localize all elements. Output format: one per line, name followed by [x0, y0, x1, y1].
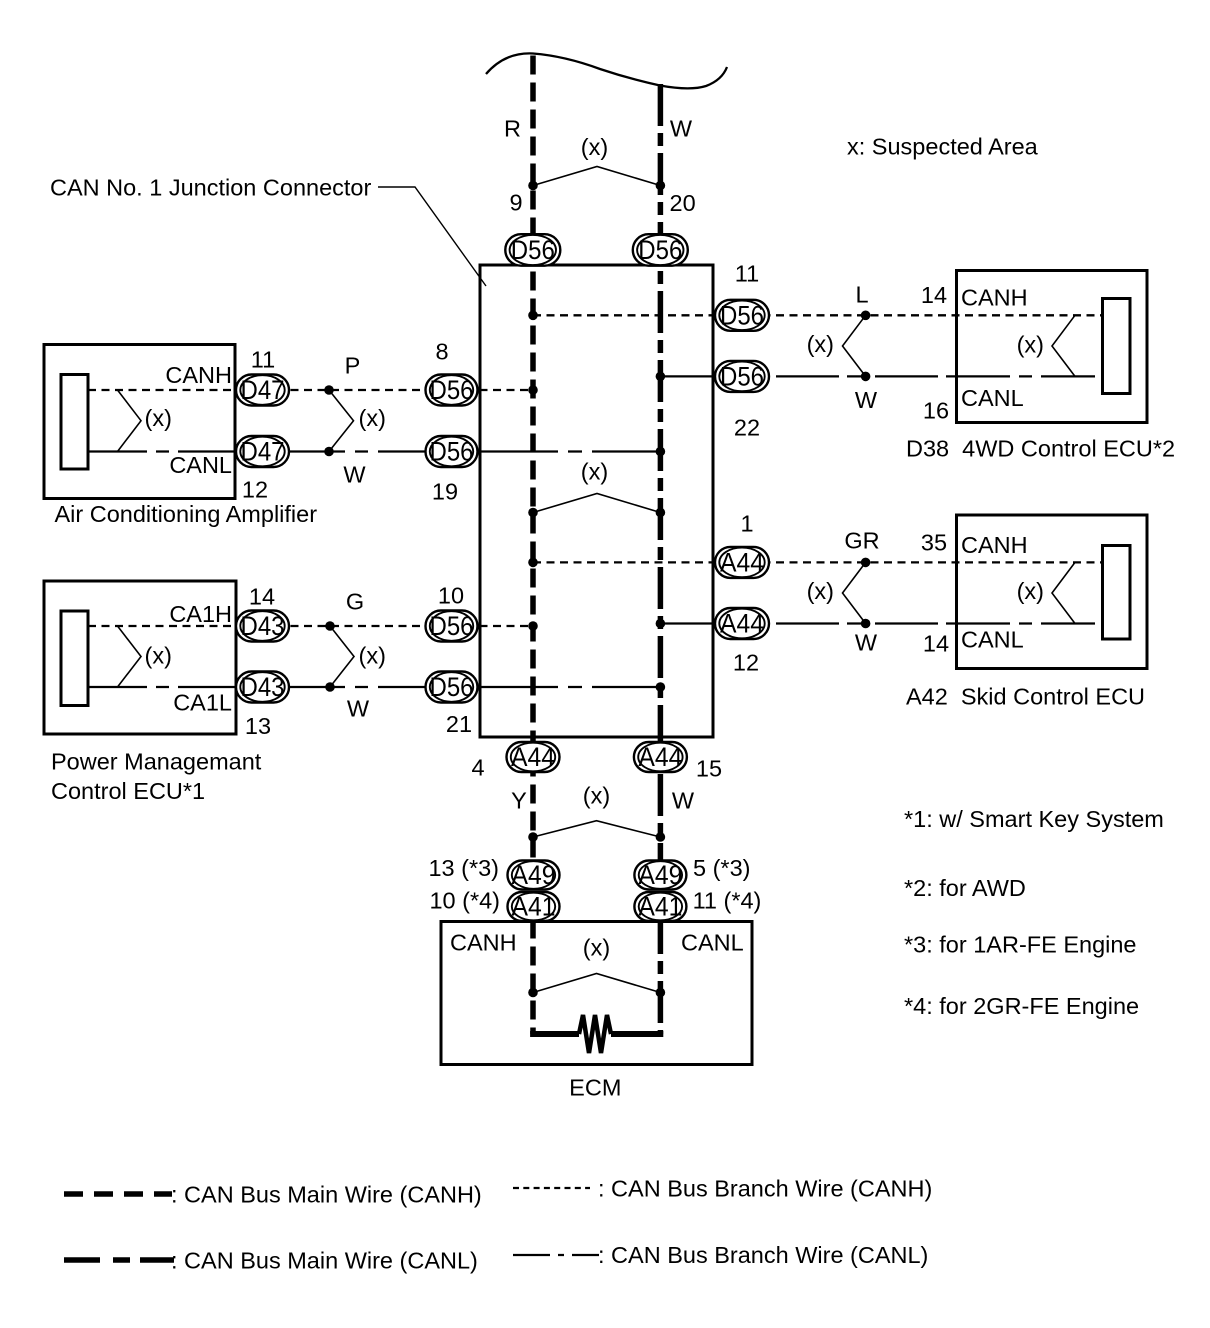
svg-text:(x): (x) [145, 405, 172, 431]
svg-text:A44: A44 [720, 609, 764, 639]
wire color P [345, 353, 361, 379]
label CANL 4wd [961, 385, 1024, 411]
svg-text:5 (*3): 5 (*3) [693, 855, 750, 881]
node ECM CANH [528, 988, 538, 998]
node below box CANH [528, 832, 538, 842]
svg-text:19: 19 [432, 479, 458, 505]
svg-text:D56: D56 [638, 235, 682, 265]
svg-text:20: 20 [670, 190, 696, 216]
note 3 [904, 932, 1137, 958]
svg-text:*2: for AWD: *2: for AWD [904, 875, 1026, 901]
svg-text:CANH: CANH [165, 362, 232, 388]
suspect label skid branch [807, 578, 834, 604]
wire color W 4wd [855, 387, 878, 413]
svg-text:GR: GR [844, 528, 879, 554]
svg-text:12: 12 [733, 650, 759, 676]
connector D56 pin19 [426, 436, 478, 467]
svg-text:D56: D56 [511, 235, 555, 265]
svg-text:Y: Y [511, 788, 527, 814]
suspect callout top [533, 167, 660, 186]
connector D43 pin13 [236, 672, 289, 703]
suspect callout skid internal [1052, 562, 1075, 623]
svg-text:10: 10 [438, 583, 464, 609]
pin 12 right [733, 650, 759, 676]
label CANH skid [961, 532, 1028, 558]
label CANH ecm [450, 930, 517, 956]
connector D43 pin14 [236, 611, 289, 642]
svg-text:CANH: CANH [961, 532, 1028, 558]
node mid box CANL [656, 508, 666, 518]
svg-text:14: 14 [249, 584, 275, 610]
node below box CANL [656, 832, 666, 842]
label D38 4WD Control ECU*2 [906, 436, 1175, 462]
node top CANL [656, 181, 666, 191]
pin 13 (*3) [428, 855, 499, 881]
svg-text:A44: A44 [638, 742, 682, 772]
node pin21 branch [656, 682, 666, 692]
label CANH a/c [165, 362, 232, 388]
legend sample main CANH [64, 1191, 172, 1197]
legend sample branch CANH [513, 1187, 590, 1189]
connector A49 pin13 (CANH) [508, 860, 560, 890]
svg-text:W: W [672, 788, 695, 814]
wire branch CANL A/C amplifier row [88, 450, 660, 452]
pin 15 [696, 756, 722, 782]
svg-text:Control ECU*1: Control ECU*1 [51, 778, 205, 804]
wire CANH main (R) vertical [530, 56, 536, 1035]
suspect callout power management branch [330, 626, 354, 687]
wire color W pm [347, 696, 370, 722]
label CANH 4wd [961, 285, 1028, 311]
wire ECM bottom right [611, 1031, 663, 1037]
suspect label below box [583, 783, 610, 809]
svg-text:ECM: ECM [569, 1075, 621, 1101]
svg-text:(x): (x) [807, 331, 834, 357]
node 4WD CANL branch [861, 372, 871, 382]
legend text main CANH [171, 1182, 482, 1208]
svg-text:A44: A44 [511, 742, 555, 772]
node PM CANH branch [325, 621, 335, 631]
label Power Managemant [51, 749, 262, 775]
svg-text:*4: for 2GR-FE Engine: *4: for 2GR-FE Engine [904, 993, 1139, 1019]
svg-text:(x): (x) [359, 405, 386, 431]
svg-text:: CAN Bus Branch Wire (CANH): : CAN Bus Branch Wire (CANH) [598, 1176, 932, 1202]
pin 22 right [734, 415, 760, 441]
label Air Conditioning Amplifier [55, 501, 318, 527]
wire branch CANH power management row [88, 625, 533, 627]
node PM CANL branch [325, 682, 335, 692]
note 1 [904, 806, 1164, 832]
Air Conditioning Amplifier internal connector [61, 375, 88, 470]
pin 21 [446, 711, 472, 737]
wire branch CANH row pin1 to Skid ECU [533, 561, 1103, 563]
svg-text:10 (*4): 10 (*4) [429, 888, 500, 914]
node pin10 branch [528, 621, 538, 631]
node pin8 branch [528, 385, 538, 395]
svg-text:(x): (x) [581, 134, 608, 160]
label ECM [569, 1075, 621, 1101]
pin 14 D43 [249, 584, 275, 610]
svg-text:W: W [855, 387, 878, 413]
note 2 [904, 875, 1026, 901]
node pin12 branch [656, 619, 666, 629]
connector A41 pin10 (CANH) [508, 892, 560, 922]
legend sample branch CANL [513, 1254, 599, 1256]
svg-text:D47: D47 [241, 437, 285, 467]
pin 11 D47 [251, 347, 275, 373]
svg-text:11: 11 [735, 261, 759, 287]
svg-text:D56: D56 [430, 611, 474, 641]
wire branch CANL row pin22 to 4WD ECU [660, 375, 1102, 377]
pin 14 skid [923, 631, 949, 657]
pin 14 4wd [921, 282, 947, 308]
node pin1 branch [528, 558, 538, 568]
wire color W a/c [343, 462, 366, 488]
wire CANL main (W) vertical [658, 84, 664, 1034]
connector A44 pin4 (bottom CANH) [507, 742, 560, 772]
label CA1L [173, 690, 232, 716]
note 4 [904, 993, 1139, 1019]
svg-text:11 (*4): 11 (*4) [693, 888, 762, 914]
svg-text:A49: A49 [638, 860, 682, 890]
wire color W skid [855, 630, 878, 656]
connector D56 pin21 [426, 672, 478, 703]
svg-text:D38 4WD Control ECU*2: D38 4WD Control ECU*2 [906, 436, 1175, 462]
4WD Control ECU internal connector [1103, 299, 1131, 394]
suspect label pm internal [145, 643, 172, 669]
svg-text:(x): (x) [583, 935, 610, 961]
suspect callout inside ECM [533, 974, 660, 993]
svg-text:D43: D43 [241, 611, 285, 641]
suspect label pm branch [359, 643, 386, 669]
connector A44 pin1 [715, 547, 769, 578]
svg-text:CANH: CANH [450, 930, 517, 956]
label CA1H [169, 601, 232, 627]
suspect callout power management internal [118, 626, 142, 687]
svg-text:CAN No. 1 Junction Connector: CAN No. 1 Junction Connector [50, 175, 371, 201]
svg-text:CA1H: CA1H [169, 601, 232, 627]
svg-text:22: 22 [734, 415, 760, 441]
pin 11 (*4) [693, 888, 762, 914]
svg-text:: CAN Bus Branch Wire (CANL): : CAN Bus Branch Wire (CANL) [598, 1242, 928, 1268]
connector D47 pin12 [236, 436, 289, 467]
suspect callout 4WD internal [1052, 315, 1075, 376]
Power Management Control ECU box [44, 581, 236, 734]
wire branch CANH A/C amplifier row [88, 389, 533, 391]
svg-text:14: 14 [923, 631, 949, 657]
pin 10 (*4) [429, 888, 500, 914]
suspect label 4wd internal [1017, 332, 1044, 358]
node top CANH [528, 181, 538, 191]
suspect label top [581, 134, 608, 160]
pin 5 (*3) [693, 855, 750, 881]
svg-text:P: P [345, 353, 361, 379]
wire color GR [844, 528, 879, 554]
suspect callout inside junction box [533, 494, 660, 513]
svg-text:(x): (x) [581, 459, 608, 485]
svg-text:13 (*3): 13 (*3) [428, 855, 499, 881]
leader line to junction connector [378, 187, 486, 286]
ECM box [441, 922, 752, 1065]
Air Conditioning Amplifier box [44, 345, 235, 499]
svg-text:CANL: CANL [961, 627, 1024, 653]
svg-text:D47: D47 [241, 375, 285, 405]
node pin22 branch [656, 372, 666, 382]
label Control ECU*1 [51, 778, 205, 804]
node ECM CANL [656, 988, 666, 998]
pin 19 [432, 479, 458, 505]
wire branch CANL row pin12 to Skid ECU [660, 622, 1102, 624]
connector A44 pin12 [715, 608, 769, 639]
wire harness break squiggle [486, 53, 727, 88]
connector D56 pin20 (top CANL) [633, 234, 688, 266]
suspect label a/c internal [145, 405, 172, 431]
suspect callout A/C branch [329, 390, 354, 452]
pin 35 skid [921, 530, 947, 556]
svg-text:CANL: CANL [169, 452, 232, 478]
node mid box CANH [528, 508, 538, 518]
wire color G [346, 589, 364, 615]
connector A44 pin15 (bottom CANL) [634, 742, 687, 772]
node skid CANL branch [861, 619, 871, 629]
wire ECM bottom left [530, 1031, 579, 1037]
svg-text:x: Suspected Area: x: Suspected Area [847, 134, 1039, 160]
svg-text:Power Managemant: Power Managemant [51, 749, 262, 775]
Power Management Control ECU internal connector [61, 611, 88, 706]
svg-text:W: W [347, 696, 370, 722]
legend text main CANL [171, 1248, 478, 1274]
svg-text:CANL: CANL [961, 385, 1024, 411]
label A42 Skid Control ECU [906, 684, 1145, 710]
wire branch CANL power management row [88, 686, 660, 688]
svg-text:(x): (x) [1017, 332, 1044, 358]
node pin11 branch [528, 311, 538, 321]
connector D56 pin10 [426, 611, 478, 642]
svg-text:12: 12 [242, 477, 268, 503]
suspect label ecm [583, 935, 610, 961]
svg-text:A41: A41 [512, 892, 556, 922]
svg-text:CANH: CANH [961, 285, 1028, 311]
svg-text:W: W [855, 630, 878, 656]
label x: Suspected Area [847, 134, 1039, 160]
legend text branch CANH [598, 1176, 932, 1202]
svg-text:(x): (x) [583, 783, 610, 809]
connector D56 pin22 [715, 361, 769, 392]
legend sample main CANL [64, 1257, 174, 1263]
suspect callout below junction box [533, 821, 660, 837]
pin 4 [471, 755, 484, 781]
legend text branch CANL [598, 1242, 928, 1268]
node pin19 branch [656, 447, 666, 457]
wire color L [855, 282, 868, 308]
wire color Y [511, 788, 527, 814]
svg-text:A49: A49 [512, 860, 556, 890]
connector D56 pin9 (top CANH) [505, 234, 560, 266]
svg-text:R: R [504, 116, 521, 142]
svg-text:*3: for 1AR-FE Engine: *3: for 1AR-FE Engine [904, 932, 1137, 958]
label CANL a/c [169, 452, 232, 478]
label CAN No. 1 Junction Connector [50, 175, 371, 201]
svg-text:(x): (x) [145, 643, 172, 669]
svg-text:D56: D56 [430, 672, 474, 702]
svg-text:4: 4 [471, 755, 484, 781]
svg-text:A44: A44 [720, 548, 764, 578]
pin 12 D47 [242, 477, 268, 503]
pin 20 [670, 190, 696, 216]
svg-text:(x): (x) [1017, 578, 1044, 604]
CAN No. 1 junction connector box [480, 265, 713, 737]
svg-text:G: G [346, 589, 364, 615]
pin 9 [509, 190, 522, 216]
pin 13 D43 [245, 713, 271, 739]
Skid Control ECU box A42 [957, 515, 1148, 669]
node 4WD CANH branch [861, 311, 871, 321]
connector D47 pin11 [236, 375, 289, 406]
pin 1 right [740, 511, 753, 537]
node A/C CANL branch [324, 447, 334, 457]
svg-text:(x): (x) [359, 643, 386, 669]
svg-text:13: 13 [245, 713, 271, 739]
label CANL skid [961, 627, 1024, 653]
suspect label a/c branch [359, 405, 386, 431]
svg-text:A41: A41 [638, 892, 682, 922]
4WD Control ECU box D38 [957, 271, 1148, 423]
svg-text:15: 15 [696, 756, 722, 782]
svg-text:1: 1 [740, 511, 753, 537]
svg-text:W: W [343, 462, 366, 488]
terminating resistor [579, 1015, 611, 1053]
connector A41 pin11 (CANL) [634, 892, 686, 922]
svg-text:D56: D56 [720, 362, 764, 392]
wire color R [504, 116, 521, 142]
svg-text:9: 9 [509, 190, 522, 216]
pin 8 [435, 339, 448, 365]
svg-text:D56: D56 [430, 437, 474, 467]
connector D56 pin8 [426, 375, 478, 406]
svg-text:: CAN Bus Main Wire (CANL): : CAN Bus Main Wire (CANL) [171, 1248, 478, 1274]
node skid CANH branch [861, 558, 871, 568]
svg-text:W: W [670, 116, 693, 142]
suspect label 4wd branch [807, 331, 834, 357]
svg-text:D56: D56 [720, 301, 764, 331]
svg-text:35: 35 [921, 530, 947, 556]
svg-text:8: 8 [435, 339, 448, 365]
suspect callout 4WD branch [843, 315, 866, 376]
suspect callout skid branch [843, 562, 866, 623]
Skid Control ECU internal connector [1103, 546, 1131, 640]
svg-text:CANL: CANL [681, 930, 744, 956]
label CANL ecm [681, 930, 744, 956]
wire color W top [670, 116, 693, 142]
node A/C CANH branch [324, 385, 334, 395]
svg-text:*1: w/ Smart Key System: *1: w/ Smart Key System [904, 806, 1164, 832]
svg-text:Air Conditioning Amplifier: Air Conditioning Amplifier [55, 501, 318, 527]
svg-text:CA1L: CA1L [173, 690, 232, 716]
svg-text:21: 21 [446, 711, 472, 737]
svg-text:L: L [855, 282, 868, 308]
wire color W bottom [672, 788, 695, 814]
suspect label in box [581, 459, 608, 485]
svg-text:A42 Skid Control ECU: A42 Skid Control ECU [906, 684, 1145, 710]
suspect label skid internal [1017, 578, 1044, 604]
svg-text:: CAN Bus Main Wire (CANH): : CAN Bus Main Wire (CANH) [171, 1182, 482, 1208]
connector D56 pin11 [715, 300, 769, 331]
connector A49 pin5 (CANL) [634, 860, 686, 890]
suspect callout A/C internal [118, 390, 142, 452]
svg-text:D56: D56 [430, 375, 474, 405]
pin 16 4wd [923, 398, 949, 424]
svg-text:11: 11 [251, 347, 275, 373]
svg-text:16: 16 [923, 398, 949, 424]
svg-text:14: 14 [921, 282, 947, 308]
wire branch CANH row pin11 to 4WD ECU [533, 314, 1103, 316]
svg-text:(x): (x) [807, 578, 834, 604]
pin 10 [438, 583, 464, 609]
svg-text:D43: D43 [241, 672, 285, 702]
pin 11 right [735, 261, 759, 287]
